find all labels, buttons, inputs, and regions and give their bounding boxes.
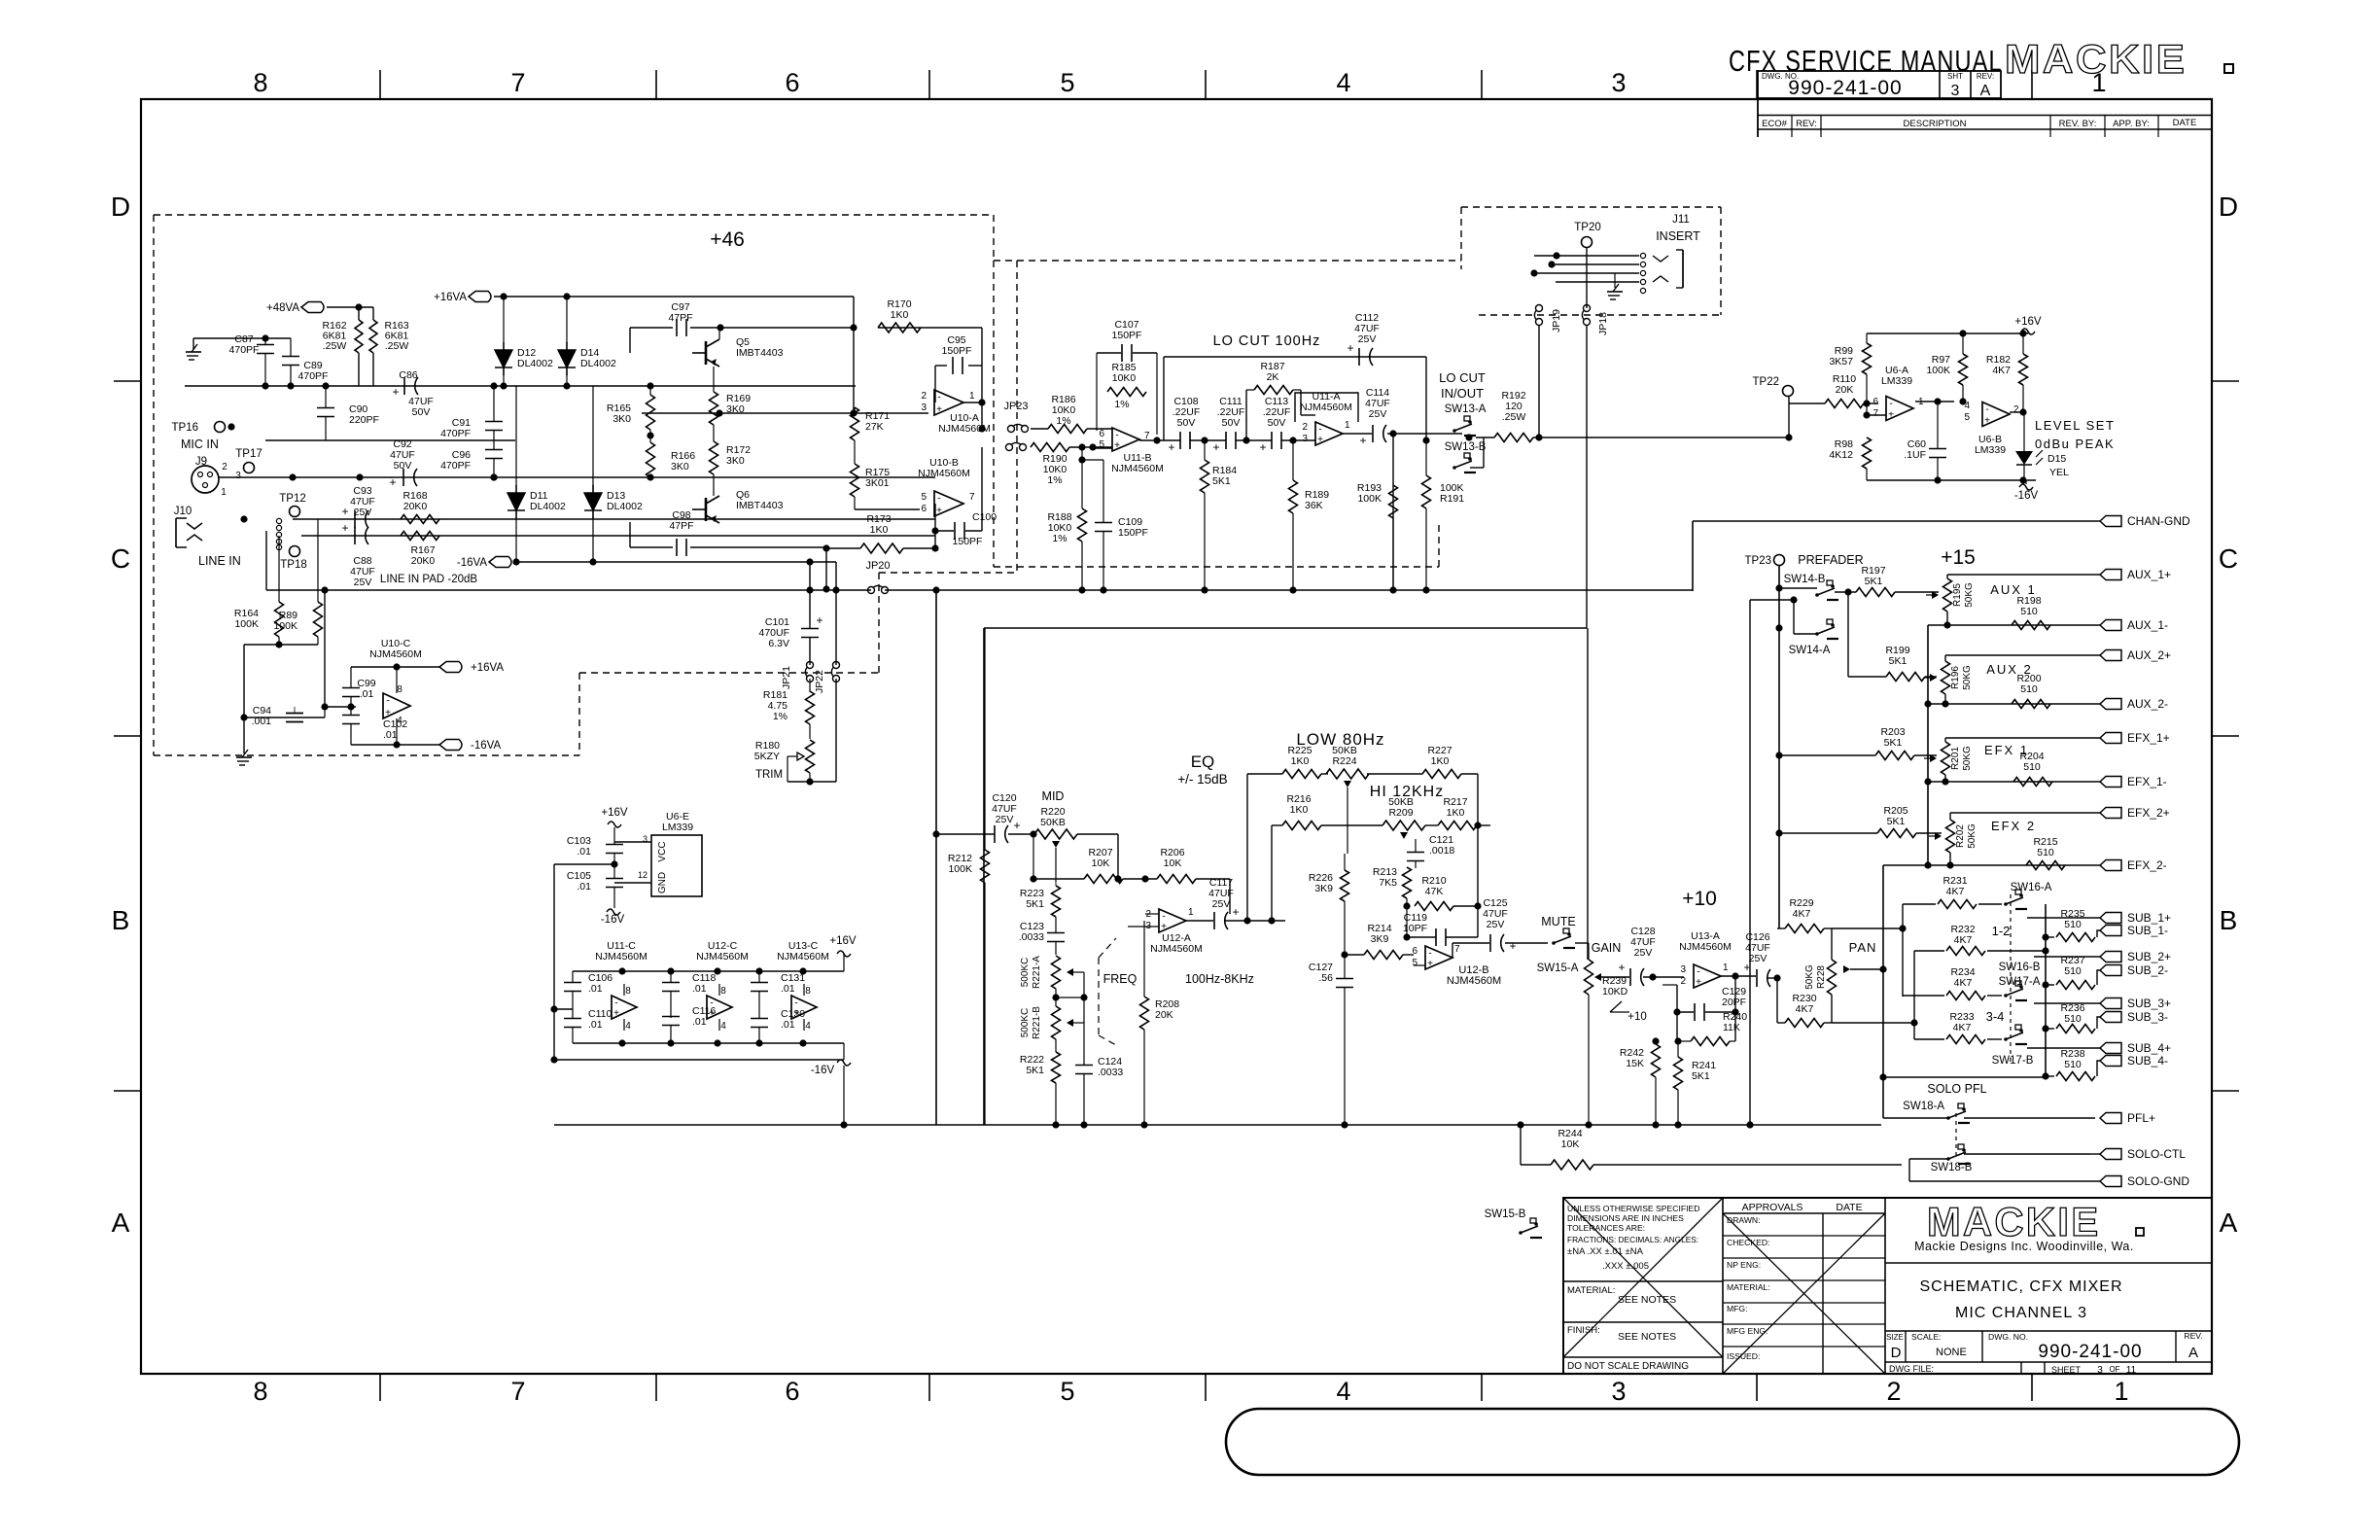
svg-text:3K0: 3K0 <box>671 461 689 472</box>
svg-text:25V: 25V <box>1749 953 1767 964</box>
svg-text:-16V: -16V <box>811 1065 835 1076</box>
svg-text:+: + <box>392 385 399 399</box>
svg-text:150PF: 150PF <box>1118 527 1148 539</box>
svg-text:1%: 1% <box>1047 474 1062 486</box>
svg-text:50V: 50V <box>412 406 431 418</box>
svg-text:TP23: TP23 <box>1745 555 1772 567</box>
svg-text:510: 510 <box>2023 761 2041 773</box>
svg-text:R221-B: R221-B <box>1032 1006 1042 1039</box>
svg-text:500KC: 500KC <box>1020 1008 1031 1038</box>
svg-text:-: - <box>1697 967 1699 978</box>
svg-text:+: + <box>816 613 822 627</box>
svg-text:DWG FILE:: DWG FILE: <box>1889 1364 1934 1374</box>
svg-text:5K1: 5K1 <box>1026 898 1044 910</box>
svg-text:47PF: 47PF <box>669 520 693 532</box>
svg-text:+: + <box>1114 440 1120 451</box>
svg-text:NJM4560M: NJM4560M <box>595 951 647 962</box>
svg-text:4K7: 4K7 <box>1954 934 1973 946</box>
svg-text:6: 6 <box>785 1377 799 1406</box>
svg-text:TP16: TP16 <box>172 422 199 434</box>
svg-text:SUB_2-: SUB_2- <box>2127 963 2168 977</box>
svg-text:EFX 2: EFX 2 <box>1991 819 2036 833</box>
svg-text:DATE: DATE <box>2173 118 2197 128</box>
svg-text:27K: 27K <box>865 421 884 433</box>
svg-text:+: + <box>1259 440 1266 454</box>
svg-text:20K: 20K <box>1155 1009 1173 1021</box>
svg-text:+: + <box>1359 434 1366 447</box>
svg-text:10KD: 10KD <box>1602 986 1628 997</box>
svg-text:5K1: 5K1 <box>1889 655 1907 667</box>
svg-text:D: D <box>1891 1345 1902 1361</box>
svg-text:3: 3 <box>2097 1365 2103 1376</box>
svg-text:TP17: TP17 <box>235 448 262 460</box>
svg-text:MUTE: MUTE <box>1541 915 1575 928</box>
svg-text:3K9: 3K9 <box>1314 883 1333 894</box>
svg-text:50KG: 50KG <box>1804 964 1815 990</box>
svg-text:3K57: 3K57 <box>1829 356 1853 367</box>
svg-text:4: 4 <box>1336 68 1350 97</box>
svg-text:1%: 1% <box>773 711 787 722</box>
svg-text:AUX_1+: AUX_1+ <box>2127 568 2171 581</box>
svg-text:-: - <box>710 998 713 1009</box>
svg-text:11K: 11K <box>1723 1022 1740 1033</box>
svg-text:50KB: 50KB <box>1040 817 1066 828</box>
svg-text:PREFADER: PREFADER <box>1798 553 1863 567</box>
svg-text:100Hz-8KHz: 100Hz-8KHz <box>1185 972 1254 986</box>
svg-text:SEE NOTES: SEE NOTES <box>1618 1294 1676 1306</box>
svg-text:-16V: -16V <box>601 914 625 926</box>
svg-text:REV. BY:: REV. BY: <box>2059 119 2097 129</box>
svg-text:+: + <box>1984 416 1990 427</box>
svg-text:10K: 10K <box>1561 1138 1580 1150</box>
svg-text:C: C <box>111 543 130 574</box>
svg-text:7: 7 <box>1872 408 1878 419</box>
svg-text:4: 4 <box>720 1021 726 1032</box>
svg-text:4K12: 4K12 <box>1829 449 1853 461</box>
svg-text:SEE NOTES: SEE NOTES <box>1618 1331 1676 1343</box>
svg-text:AUX_2-: AUX_2- <box>2127 697 2168 711</box>
svg-text:SW15-A: SW15-A <box>1537 962 1579 974</box>
svg-text:10K: 10K <box>1092 857 1110 869</box>
svg-text:SUB_4-: SUB_4- <box>2127 1054 2168 1067</box>
svg-text:±NA .XX ±.01 ±NA: ±NA .XX ±.01 ±NA <box>1567 1246 1644 1257</box>
svg-text:.01: .01 <box>577 881 591 892</box>
svg-text:7: 7 <box>510 68 525 97</box>
svg-text:0dBu PEAK: 0dBu PEAK <box>2035 437 2115 451</box>
svg-text:25V: 25V <box>1358 333 1377 345</box>
svg-text:+15: +15 <box>1941 546 1976 569</box>
svg-text:5: 5 <box>1964 412 1970 423</box>
svg-text:25V: 25V <box>1212 898 1231 910</box>
svg-text:APP. BY:: APP. BY: <box>2113 119 2150 129</box>
svg-text:-: - <box>386 696 389 707</box>
svg-text:3: 3 <box>1951 83 1960 99</box>
svg-text:LO CUT 100Hz: LO CUT 100Hz <box>1213 333 1321 349</box>
svg-text:10K: 10K <box>1164 857 1182 869</box>
svg-text:+/- 15dB: +/- 15dB <box>1177 772 1227 787</box>
svg-text:+: + <box>793 1008 799 1019</box>
svg-text:470PF: 470PF <box>440 460 471 472</box>
svg-text:220PF: 220PF <box>349 414 379 426</box>
svg-text:JP18: JP18 <box>1597 312 1609 335</box>
svg-text:+: + <box>1427 959 1433 969</box>
svg-text:8: 8 <box>720 986 726 997</box>
svg-text:LEVEL SET: LEVEL SET <box>2035 418 2115 433</box>
svg-text:50V: 50V <box>394 460 412 472</box>
svg-text:3: 3 <box>1680 964 1686 975</box>
svg-text:5K1: 5K1 <box>1865 576 1883 587</box>
svg-text:5KZY: 5KZY <box>754 751 780 762</box>
svg-text:.1UF: .1UF <box>1904 449 1926 461</box>
svg-text:C: C <box>2219 543 2238 574</box>
svg-text:2: 2 <box>921 391 927 402</box>
svg-text:1K0: 1K0 <box>1431 755 1450 767</box>
svg-text:LM339: LM339 <box>1975 444 2006 456</box>
svg-text:LM339: LM339 <box>1881 375 1912 387</box>
svg-text:5K1: 5K1 <box>1692 1070 1710 1082</box>
svg-text:50KG: 50KG <box>1962 746 1973 771</box>
svg-text:7K5: 7K5 <box>1379 877 1397 889</box>
svg-text:CHAN-GND: CHAN-GND <box>2127 514 2190 528</box>
svg-text:47PF: 47PF <box>668 312 692 324</box>
svg-text:CHECKED:: CHECKED: <box>1727 1238 1769 1247</box>
svg-text:R191: R191 <box>1440 493 1464 505</box>
svg-text:A: A <box>2188 1345 2198 1361</box>
svg-text:50V: 50V <box>1177 417 1196 429</box>
svg-text:B: B <box>2220 905 2238 935</box>
svg-text:.01: .01 <box>383 729 398 741</box>
svg-text:+: + <box>613 1008 619 1019</box>
svg-text:100K: 100K <box>1357 493 1382 505</box>
svg-text:R195: R195 <box>1952 583 1963 607</box>
svg-text:JP20: JP20 <box>865 560 890 572</box>
svg-text:JP19: JP19 <box>1551 309 1562 332</box>
svg-text:2K: 2K <box>1267 371 1279 383</box>
svg-text:12: 12 <box>638 870 647 880</box>
svg-text:6: 6 <box>1412 946 1417 957</box>
svg-text:3: 3 <box>1302 434 1308 444</box>
svg-text:-16VA: -16VA <box>471 740 501 752</box>
svg-text:-: - <box>1115 431 1118 441</box>
svg-text:NP ENG:: NP ENG: <box>1727 1260 1761 1270</box>
svg-text:1%: 1% <box>1114 399 1129 410</box>
svg-text:J11: J11 <box>1672 214 1690 226</box>
svg-text:LM339: LM339 <box>662 822 693 833</box>
svg-text:+: + <box>1347 341 1353 355</box>
svg-text:150PF: 150PF <box>942 345 972 357</box>
svg-text:.01: .01 <box>692 1016 707 1028</box>
svg-text:SUB_1-: SUB_1- <box>2127 924 2168 937</box>
svg-text:6.3V: 6.3V <box>768 638 789 649</box>
svg-text:.01: .01 <box>577 846 591 857</box>
svg-text:510: 510 <box>2064 1013 2082 1025</box>
svg-text:EQ: EQ <box>1191 752 1215 771</box>
svg-text:EFX_2+: EFX_2+ <box>2127 806 2170 820</box>
svg-text:50V: 50V <box>1268 417 1286 429</box>
svg-text:SHT: SHT <box>1947 72 1963 81</box>
svg-text:R201: R201 <box>1950 747 1961 770</box>
svg-text:TP22: TP22 <box>1753 376 1780 388</box>
svg-text:DIMENSIONS ARE IN INCHES: DIMENSIONS ARE IN INCHES <box>1567 1213 1684 1223</box>
svg-text:.0018: .0018 <box>1429 845 1454 857</box>
svg-text:REV.: REV. <box>2184 1331 2202 1341</box>
svg-text:TP18: TP18 <box>280 559 307 571</box>
svg-text:NJM4560M: NJM4560M <box>1447 975 1501 987</box>
svg-text:+16VA: +16VA <box>434 292 467 303</box>
svg-text:SUB_2+: SUB_2+ <box>2127 950 2171 963</box>
svg-text:NJM4560M: NJM4560M <box>1679 941 1732 953</box>
svg-text:DL4002: DL4002 <box>607 501 643 512</box>
svg-text:.0033: .0033 <box>1019 931 1044 943</box>
svg-text:SW17-B: SW17-B <box>1992 1055 2034 1067</box>
svg-text:4K7: 4K7 <box>1796 1003 1814 1015</box>
svg-text:JP21: JP21 <box>781 666 792 689</box>
svg-text:1: 1 <box>221 487 227 498</box>
svg-text:15K: 15K <box>1626 1058 1644 1069</box>
svg-text:510: 510 <box>2037 847 2054 858</box>
svg-text:Mackie Designs Inc. Woodinvi: Mackie Designs Inc. Woodinville, Wa. <box>1914 1240 2134 1253</box>
svg-text:500KC: 500KC <box>1020 958 1031 988</box>
svg-text:50KG: 50KG <box>1964 582 1975 608</box>
svg-text:J10: J10 <box>174 506 192 517</box>
svg-text:510: 510 <box>2064 919 2082 930</box>
svg-text:MFG ENG:: MFG ENG: <box>1727 1326 1768 1336</box>
svg-text:4: 4 <box>625 1021 631 1032</box>
svg-text:1K0: 1K0 <box>1447 807 1465 819</box>
svg-text:SUB_1+: SUB_1+ <box>2127 911 2171 925</box>
svg-text:5: 5 <box>921 492 927 503</box>
svg-text:.25W: .25W <box>1502 411 1526 423</box>
svg-text:LINE IN: LINE IN <box>198 554 241 568</box>
svg-text:NJM4560M: NJM4560M <box>777 951 829 962</box>
svg-text:5K1: 5K1 <box>1887 816 1906 827</box>
svg-text:OF: OF <box>2109 1365 2119 1374</box>
svg-text:100K: 100K <box>1926 365 1950 376</box>
svg-text:510: 510 <box>2064 965 2082 977</box>
svg-text:1%: 1% <box>1052 533 1067 544</box>
svg-text:INSERT: INSERT <box>1656 229 1700 243</box>
svg-text:8: 8 <box>625 986 631 997</box>
svg-text:1K0: 1K0 <box>891 309 909 321</box>
svg-text:FINISH:: FINISH: <box>1567 1325 1600 1336</box>
svg-text:DL4002: DL4002 <box>517 358 553 369</box>
svg-text:990-241-00: 990-241-00 <box>2038 1342 2142 1362</box>
svg-text:20K: 20K <box>1836 384 1854 396</box>
svg-text:JP23: JP23 <box>1003 401 1028 412</box>
svg-text:20K0: 20K0 <box>411 555 436 567</box>
svg-text:3: 3 <box>921 402 927 413</box>
svg-text:EFX_2-: EFX_2- <box>2127 858 2167 872</box>
svg-text:+48VA: +48VA <box>266 302 299 314</box>
svg-text:FRACTIONS: DECIMALS: AN: FRACTIONS: DECIMALS: ANGLES: <box>1567 1235 1698 1244</box>
svg-text:+: + <box>1013 819 1020 832</box>
svg-text:+10: +10 <box>1627 1011 1647 1023</box>
svg-text:100K: 100K <box>273 620 297 632</box>
svg-text:NJM4560M: NJM4560M <box>1111 463 1164 474</box>
svg-text:MFG:: MFG: <box>1727 1304 1747 1313</box>
svg-text:A: A <box>112 1207 130 1238</box>
svg-text:+16VA: +16VA <box>471 662 504 674</box>
svg-text:150PF: 150PF <box>953 536 983 547</box>
svg-text:470PF: 470PF <box>298 370 329 382</box>
svg-text:GAIN: GAIN <box>1592 941 1622 955</box>
svg-text:UNLESS OTHERWISE SPECIFIED: UNLESS OTHERWISE SPECIFIED <box>1567 1204 1699 1213</box>
svg-text:R221-A: R221-A <box>1032 956 1042 989</box>
svg-text:D: D <box>111 192 130 222</box>
svg-text:36K: 36K <box>1305 500 1323 511</box>
svg-text:MID: MID <box>1042 789 1065 803</box>
svg-text:SW15-B: SW15-B <box>1485 1208 1526 1220</box>
svg-text:+: + <box>1696 977 1701 988</box>
svg-text:R209: R209 <box>1388 807 1413 819</box>
svg-text:+: + <box>1888 410 1894 421</box>
svg-text:MACKIE: MACKIE <box>2005 37 2187 83</box>
svg-text:3K01: 3K01 <box>865 477 890 489</box>
svg-text:5K1: 5K1 <box>1026 1065 1044 1076</box>
svg-text:SW13-A: SW13-A <box>1445 403 1487 415</box>
svg-text:AUX_2+: AUX_2+ <box>2127 648 2171 662</box>
svg-text:LO CUT: LO CUT <box>1439 370 1486 385</box>
svg-text:R196: R196 <box>1950 666 1961 689</box>
svg-text:5: 5 <box>1412 958 1417 968</box>
svg-text:R228: R228 <box>1816 965 1827 989</box>
svg-text:SOLO-CTL: SOLO-CTL <box>2127 1147 2186 1161</box>
svg-text:MACKIE: MACKIE <box>1927 1199 2100 1244</box>
svg-text:+: + <box>389 475 396 489</box>
svg-text:100K: 100K <box>948 863 972 875</box>
svg-text:IMBT4403: IMBT4403 <box>736 500 784 511</box>
svg-text:MATERIAL:: MATERIAL: <box>1567 1285 1615 1296</box>
svg-text:1: 1 <box>2114 1377 2128 1406</box>
svg-text:.XXX ±.005: .XXX ±.005 <box>1602 1261 1649 1272</box>
svg-text:REV:: REV: <box>1796 119 1817 129</box>
svg-text:TP12: TP12 <box>279 493 306 505</box>
svg-text:4K7: 4K7 <box>1953 1022 1972 1033</box>
svg-text:6: 6 <box>1872 397 1878 407</box>
svg-text:YEL: YEL <box>2049 467 2069 478</box>
svg-text:+16V: +16V <box>829 935 857 947</box>
svg-text:MIC IN: MIC IN <box>181 437 219 451</box>
svg-text:+: + <box>936 506 942 516</box>
svg-text:TRIM: TRIM <box>755 769 783 781</box>
svg-text:-16VA: -16VA <box>457 557 487 569</box>
svg-text:.01: .01 <box>588 1019 603 1031</box>
svg-text:AUX_1-: AUX_1- <box>2127 618 2168 632</box>
svg-text:1: 1 <box>969 391 975 402</box>
svg-text:3: 3 <box>1611 68 1626 97</box>
svg-text:25V: 25V <box>1487 919 1505 930</box>
svg-text:MATERIAL:: MATERIAL: <box>1727 1282 1770 1292</box>
svg-text:2: 2 <box>1302 422 1308 433</box>
svg-text:1K0: 1K0 <box>1290 804 1309 816</box>
svg-text:TP20: TP20 <box>1574 222 1601 233</box>
svg-text:EFX_1+: EFX_1+ <box>2127 731 2170 745</box>
svg-text:+: + <box>1212 440 1219 454</box>
svg-text:4K7: 4K7 <box>1992 365 2011 376</box>
svg-text:DESCRIPTION: DESCRIPTION <box>1904 119 1967 129</box>
svg-text:R202: R202 <box>1955 824 1966 848</box>
svg-text:SW16-B: SW16-B <box>1999 962 2041 973</box>
svg-text:510: 510 <box>2020 606 2038 617</box>
svg-text:8: 8 <box>253 68 267 97</box>
svg-text:3-4: 3-4 <box>1986 1009 2005 1024</box>
svg-text:-16V: -16V <box>2014 490 2039 502</box>
svg-text:25V: 25V <box>1369 408 1387 420</box>
svg-text:4K7: 4K7 <box>1793 908 1811 920</box>
svg-text:-: - <box>614 998 617 1009</box>
svg-text:ECO#: ECO# <box>1762 119 1788 129</box>
svg-text:-: - <box>1428 949 1431 960</box>
svg-text:7: 7 <box>969 492 975 503</box>
svg-text:DO NOT SCALE DRAWING: DO NOT SCALE DRAWING <box>1567 1361 1689 1372</box>
svg-text:EFX_1-: EFX_1- <box>2127 775 2167 788</box>
svg-text:SOLO PFL: SOLO PFL <box>1927 1082 1986 1096</box>
svg-text:5: 5 <box>1060 68 1074 97</box>
svg-text:6: 6 <box>1099 429 1104 439</box>
svg-text:SOLO-GND: SOLO-GND <box>2127 1174 2189 1188</box>
svg-text:PAN: PAN <box>1849 940 1877 955</box>
svg-text:PFL+: PFL+ <box>2127 1111 2155 1125</box>
svg-text:+: + <box>1618 961 1625 974</box>
svg-text:1K0: 1K0 <box>1291 755 1310 767</box>
svg-text:DWG. NO.: DWG. NO. <box>1988 1332 2028 1342</box>
svg-text:REV:: REV: <box>1977 72 1994 81</box>
svg-text:3K0: 3K0 <box>726 455 745 467</box>
svg-text:B: B <box>112 905 130 935</box>
svg-text:DRAWN:: DRAWN: <box>1727 1215 1761 1225</box>
svg-text:MIC CHANNEL 3: MIC CHANNEL 3 <box>1955 1305 2087 1321</box>
svg-text:1K0: 1K0 <box>870 524 889 536</box>
svg-text:DL4002: DL4002 <box>530 501 566 512</box>
svg-text:GND: GND <box>657 872 668 893</box>
svg-text:8: 8 <box>805 986 811 997</box>
svg-text:470PF: 470PF <box>229 344 260 356</box>
svg-text:R224: R224 <box>1332 755 1356 767</box>
svg-text:510: 510 <box>2020 683 2038 695</box>
svg-text:C100: C100 <box>972 511 997 523</box>
svg-text:25V: 25V <box>354 577 372 588</box>
svg-text:JP22: JP22 <box>814 670 825 693</box>
svg-text:TOLERANCES ARE:: TOLERANCES ARE: <box>1567 1223 1645 1233</box>
svg-text:.56: .56 <box>1318 972 1333 984</box>
svg-text:100K: 100K <box>234 618 259 630</box>
svg-text:50KG: 50KG <box>1967 823 1977 849</box>
svg-text:SIZE: SIZE <box>1886 1333 1904 1342</box>
svg-text:4: 4 <box>1336 1377 1350 1406</box>
svg-text:+: + <box>1161 922 1167 932</box>
svg-text:+: + <box>1317 435 1323 445</box>
svg-text:990-241-00: 990-241-00 <box>1788 77 1902 99</box>
svg-text:.01: .01 <box>781 1019 795 1031</box>
svg-text:5K1: 5K1 <box>1212 475 1231 487</box>
svg-text:5K1: 5K1 <box>1884 737 1903 749</box>
svg-text:DATE: DATE <box>1836 1202 1862 1213</box>
svg-text:3K0: 3K0 <box>612 413 631 425</box>
svg-text:SW18-B: SW18-B <box>1931 1162 1973 1173</box>
svg-text:SW14-A: SW14-A <box>1789 645 1831 656</box>
svg-text:-: - <box>1162 912 1165 923</box>
svg-text:510: 510 <box>2064 1059 2082 1070</box>
svg-text:A: A <box>1980 83 1991 99</box>
svg-text:3: 3 <box>235 471 241 481</box>
svg-text:-: - <box>937 393 940 403</box>
svg-text:NJM4560M: NJM4560M <box>369 648 422 660</box>
svg-text:SW16-A: SW16-A <box>2011 882 2052 893</box>
svg-text:4: 4 <box>1964 401 1970 411</box>
svg-text:10K0: 10K0 <box>1112 372 1137 384</box>
svg-text:SW14-B: SW14-B <box>1784 574 1826 585</box>
svg-text:2: 2 <box>2013 404 2019 415</box>
